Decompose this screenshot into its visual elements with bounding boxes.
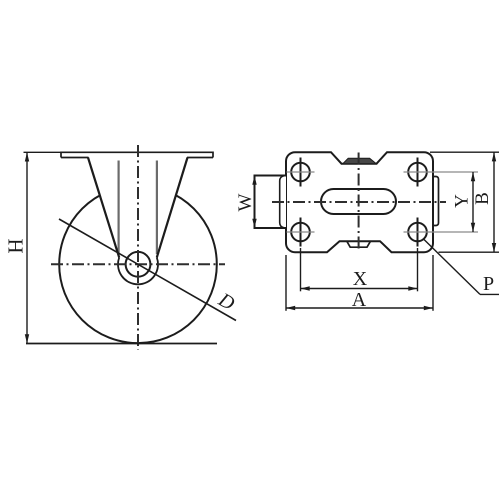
hole crosshair horizontal bottom-left (287, 231, 315, 233)
B extension line bottom (439, 251, 500, 253)
A extension line right (432, 255, 434, 311)
Y arrow bottom (471, 223, 475, 232)
H arrow top (25, 152, 29, 161)
B arrow bottom (492, 243, 496, 252)
fork fill mask (89, 156, 187, 259)
svg-text:A: A (352, 289, 367, 311)
wheel tread edge line (280, 176, 284, 228)
Y extension line top (404, 171, 479, 173)
svg-text:Y: Y (452, 194, 473, 208)
H dimension line (26, 152, 28, 343)
vertical centerline (137, 145, 139, 350)
W arrow top (252, 176, 256, 185)
wheel top view rectangle (255, 176, 287, 229)
diameter line D (59, 219, 236, 321)
svg-text:X: X (353, 268, 368, 290)
fork inner edge right (156, 161, 158, 255)
H arrow bottom (25, 334, 29, 343)
hole crosshair vertical top-left (300, 158, 302, 187)
X arrow left (301, 286, 310, 290)
hub outer housing arc (118, 258, 158, 285)
hole crosshair vertical top-right (417, 158, 419, 187)
svg-text:W: W (235, 193, 256, 211)
P leader line (423, 239, 480, 295)
A arrow right (424, 306, 433, 310)
axle circle (126, 252, 151, 277)
X arrow right (408, 286, 417, 290)
H extension line top (24, 151, 62, 153)
fork inner edge left (117, 161, 119, 255)
central slot (321, 189, 396, 214)
top locating tab (filled) (343, 158, 377, 164)
B dimension line (493, 152, 495, 252)
Y extension line bottom (404, 231, 479, 233)
svg-text:B: B (472, 192, 493, 205)
X extension line right (417, 248, 419, 291)
P leader underline (480, 293, 499, 295)
X dimension line (301, 288, 418, 290)
ground line (26, 343, 217, 345)
A dimension line (286, 307, 433, 309)
B arrow top (492, 152, 496, 161)
A arrow left (286, 306, 295, 310)
A extension line left (285, 255, 287, 311)
fork outer edge left (88, 158, 119, 258)
hole crosshair horizontal top-left (287, 171, 315, 173)
W dimension line (254, 176, 256, 229)
Y arrow top (471, 172, 475, 181)
X extension line left (300, 248, 302, 291)
svg-text:H: H (4, 238, 28, 253)
top plate side view (61, 152, 213, 157)
bolt hole bottom-right (408, 223, 427, 242)
wheel (59, 185, 217, 343)
plate vertical centerline (358, 153, 360, 253)
B extension line top (430, 151, 499, 153)
Y dimension line (472, 172, 474, 232)
bolt hole bottom-left (291, 223, 310, 242)
bolt hole top-right (408, 163, 427, 182)
W arrow bottom (252, 219, 256, 228)
hole crosshair vertical bottom-left (300, 218, 302, 247)
svg-text:D: D (214, 288, 239, 315)
svg-text:P: P (483, 273, 494, 295)
bolt hole top-left (291, 163, 310, 182)
plate horizontal centerline (272, 201, 446, 203)
plate outline (286, 152, 433, 252)
horizontal centerline (51, 263, 225, 265)
fork outer edge right (157, 158, 188, 258)
right side tab (433, 177, 439, 226)
hole crosshair vertical bottom-right (417, 218, 419, 247)
bottom locating tab (347, 241, 371, 247)
